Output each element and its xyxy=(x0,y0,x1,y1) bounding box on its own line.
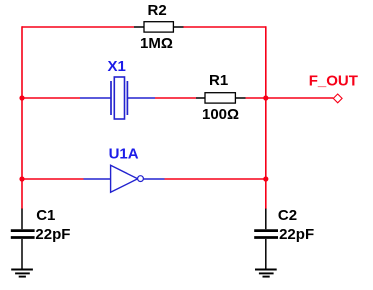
node F_OUT terminal xyxy=(309,72,358,102)
svg-text:F_OUT: F_OUT xyxy=(309,72,358,89)
wire U1A output to right bus xyxy=(165,178,266,180)
svg-text:100Ω: 100Ω xyxy=(202,106,239,123)
junction left row3 xyxy=(19,176,24,181)
wire right vertical bus xyxy=(265,26,267,209)
wire left vertical bus xyxy=(21,26,23,209)
capacitor C2 xyxy=(254,207,314,270)
svg-text:C1: C1 xyxy=(36,207,55,224)
svg-text:R1: R1 xyxy=(209,72,228,89)
svg-text:22pF: 22pF xyxy=(279,226,314,243)
inverter U1A xyxy=(84,146,165,193)
resistor R2 xyxy=(134,2,183,52)
svg-text:U1A: U1A xyxy=(109,146,139,163)
svg-text:1MΩ: 1MΩ xyxy=(140,35,173,52)
junction right row2 xyxy=(263,95,268,100)
wire row3 left xyxy=(22,178,84,180)
resistor R1 xyxy=(196,72,246,123)
wire R2 to top-right corner xyxy=(183,26,266,28)
ground (left) xyxy=(11,270,33,277)
junction right row3 xyxy=(263,176,268,181)
wire X1 to R1 xyxy=(155,97,196,99)
capacitor C1 xyxy=(11,207,71,270)
ground (right) xyxy=(255,270,277,277)
junction left row2 xyxy=(19,95,24,100)
wire R1 to junction xyxy=(246,97,266,99)
svg-text:X1: X1 xyxy=(108,58,126,75)
wire top-left to R2 xyxy=(22,26,134,28)
crystal X1 xyxy=(80,58,155,119)
wire row2 left xyxy=(22,97,80,99)
svg-text:R2: R2 xyxy=(148,2,167,19)
wire junction to F_OUT xyxy=(266,97,333,99)
svg-text:C2: C2 xyxy=(278,207,297,224)
svg-text:22pF: 22pF xyxy=(35,226,70,243)
